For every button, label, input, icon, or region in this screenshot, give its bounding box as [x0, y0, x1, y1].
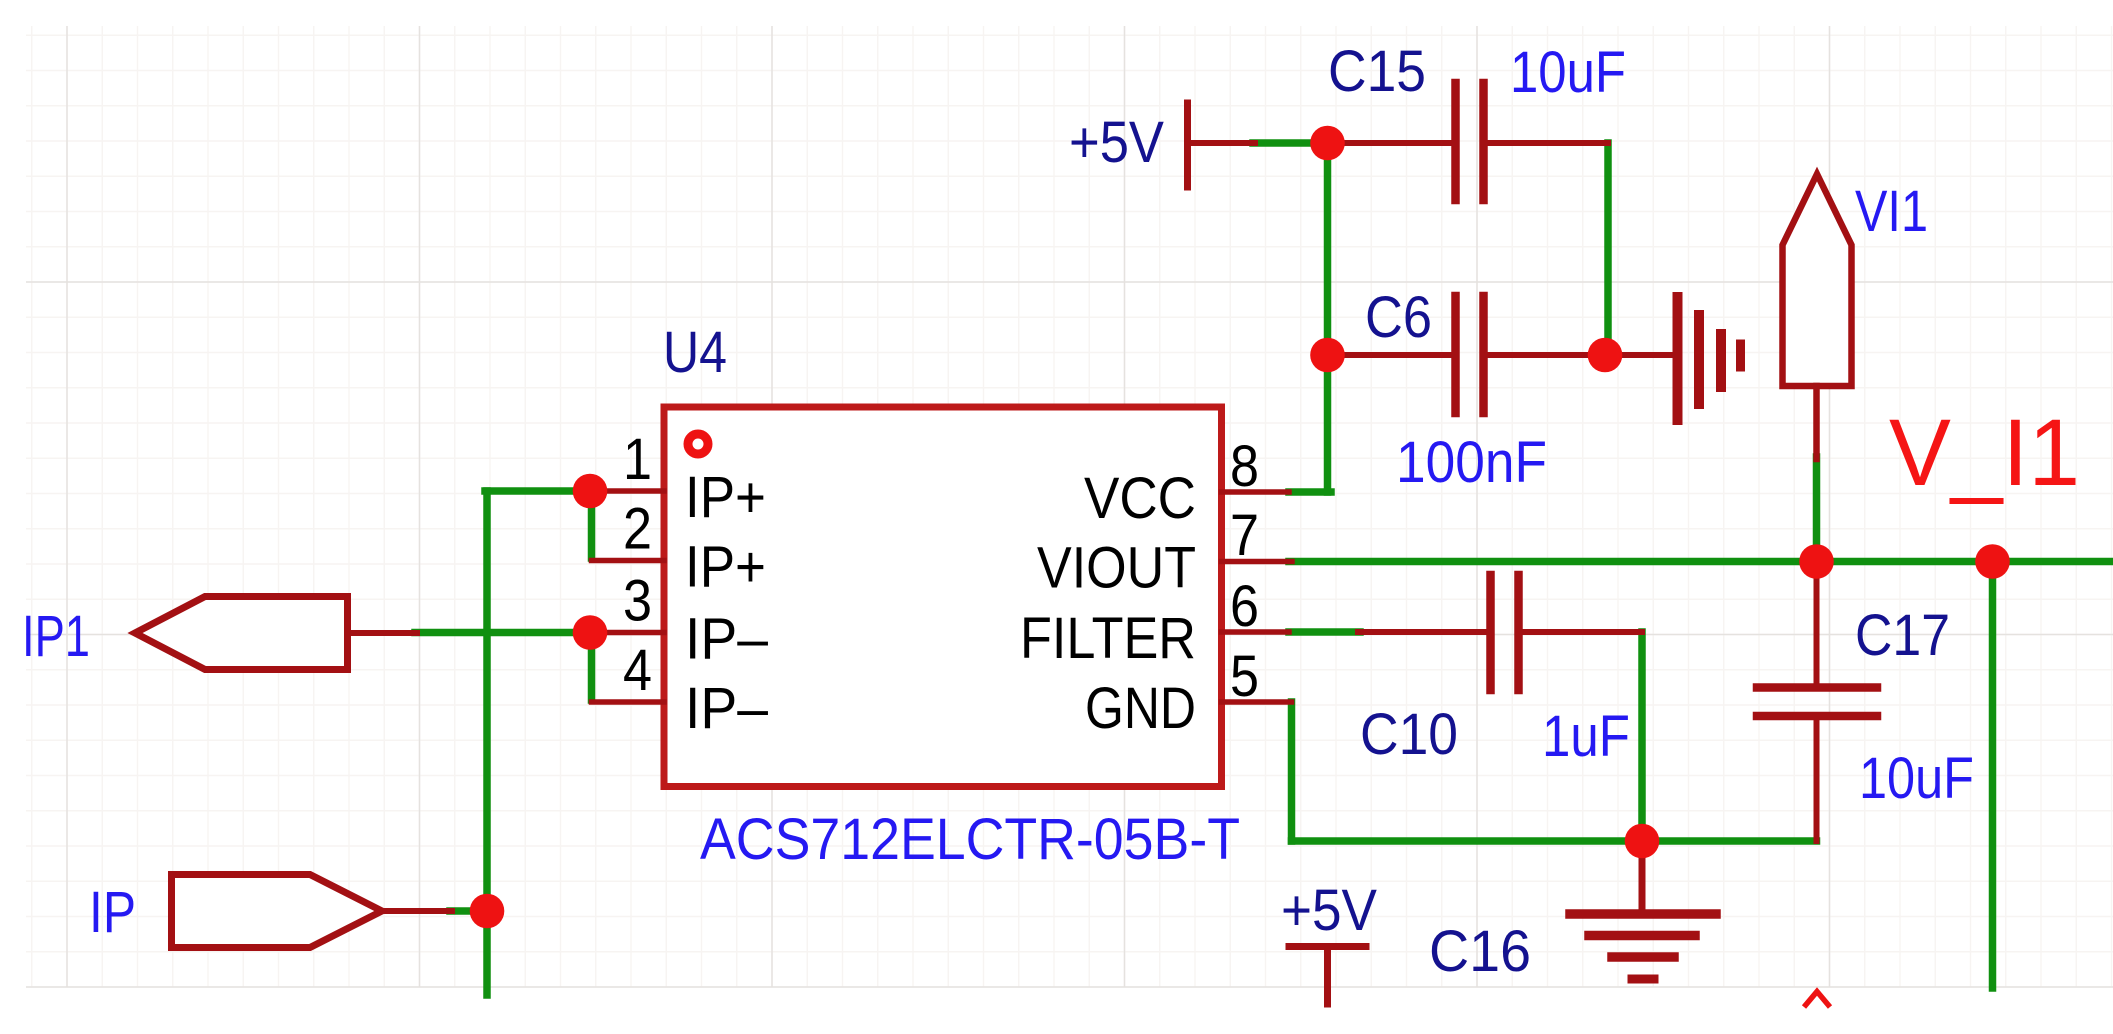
svg-text:7: 7: [1230, 503, 1259, 568]
svg-text:C15: C15: [1328, 39, 1426, 104]
wire IP port to junction: [450, 907, 487, 915]
svg-text:1: 1: [623, 427, 652, 492]
svg-text:2: 2: [623, 497, 652, 562]
svg-text:U4: U4: [663, 320, 727, 385]
port IP1 (points left): [135, 597, 348, 670]
U4 pin 5 stub: [1222, 699, 1292, 705]
pin VI1 (vertical connector pin): [1783, 174, 1852, 386]
wire pin3 to pin4 vertical: [588, 633, 596, 701]
node junction C6 right / ground: [1588, 338, 1623, 373]
+5V power symbol (bottom): [1289, 943, 1366, 950]
wire right vertical drop from VIOUT: [1989, 562, 1997, 989]
svg-text:C16: C16: [1429, 919, 1531, 984]
svg-text:10uF: 10uF: [1859, 746, 1974, 811]
capacitor C6 (right lead): [1488, 352, 1606, 358]
U4 pin 3 stub: [588, 630, 664, 636]
capacitor C17 (bottom lead): [1814, 720, 1820, 842]
svg-text:+5V: +5V: [1069, 110, 1164, 175]
svg-text:V_I1: V_I1: [1889, 400, 2080, 506]
+5V power symbol (top): [1184, 103, 1191, 187]
node junction +5V / C15: [1310, 126, 1345, 161]
wire GND net horizontal: [1292, 837, 1817, 845]
wire VI1 stem to VIOUT net: [1813, 457, 1821, 562]
svg-text:3: 3: [623, 569, 652, 634]
node junction C6 left / VCC net: [1310, 338, 1345, 373]
node junction pin1 / IP1 net: [573, 474, 608, 509]
wire pin1 to pin2 vertical: [588, 491, 596, 558]
svg-text:IP1: IP1: [22, 604, 90, 669]
svg-text:8: 8: [1230, 434, 1259, 499]
capacitor C15 (left lead): [1327, 140, 1452, 146]
svg-text:IP–: IP–: [685, 676, 769, 741]
svg-text:6: 6: [1230, 574, 1259, 639]
wire C15 right to C6 right vertical: [1604, 143, 1612, 355]
U4 pin 1 stub: [588, 488, 664, 494]
svg-text:C6: C6: [1365, 285, 1432, 350]
U4 pin 4 stub: [592, 699, 665, 705]
wire VIOUT net horizontal: [1289, 558, 2113, 566]
capacitor C15 (right lead): [1488, 140, 1609, 146]
svg-text:IP–: IP–: [685, 607, 769, 672]
wire VCC pin8 horizontal: [1289, 488, 1331, 496]
node junction GND net / ground: [1625, 824, 1660, 859]
svg-text:IP: IP: [89, 880, 136, 945]
svg-text:4: 4: [623, 638, 652, 703]
svg-text:+5V: +5V: [1281, 878, 1377, 943]
wire +5V to junction (top): [1253, 139, 1332, 147]
U4 pin 2 stub: [592, 558, 665, 564]
ground symbol (sideways, right of C6): [1605, 352, 1674, 358]
svg-text:VI1: VI1: [1855, 179, 1928, 244]
op-amp U4 body (ACS712 current sensor rectangle): [664, 407, 1222, 787]
svg-text:IP+: IP+: [685, 465, 766, 530]
svg-text:10uF: 10uF: [1510, 40, 1626, 105]
capacitor C6 plates: [1451, 296, 1460, 413]
capacitor C10 (left lead): [1358, 629, 1487, 635]
port IP (points right): [172, 875, 383, 948]
wire GND pin5 vertical: [1288, 702, 1296, 841]
wire IP1 left vertical: [483, 491, 491, 995]
node junction VIOUT / C17 / VI1: [1799, 544, 1834, 579]
wire vertical +5V junction to VCC net: [1324, 143, 1332, 492]
power symbol arrow tip (bottom, cropped): [1804, 992, 1830, 1008]
capacitor C6 (left lead): [1327, 352, 1452, 358]
svg-text:C17: C17: [1855, 603, 1950, 668]
capacitor C17 plates: [1757, 683, 1877, 692]
svg-text:FILTER: FILTER: [1020, 606, 1196, 671]
wire FILTER pin6 segment: [1289, 628, 1360, 636]
svg-text:5: 5: [1230, 644, 1259, 709]
ground symbol (below GND net): [1639, 841, 1646, 911]
U4 pin-1 orientation circle: [688, 434, 708, 454]
node junction VIOUT / right drop: [1975, 544, 2010, 579]
svg-text:VCC: VCC: [1084, 466, 1196, 531]
wire pin1 junction horizontal: [485, 487, 592, 495]
svg-text:VIOUT: VIOUT: [1037, 536, 1196, 601]
capacitor C15 plates: [1451, 83, 1460, 200]
capacitor C10 (right lead): [1523, 629, 1643, 635]
svg-text:GND: GND: [1085, 676, 1196, 741]
svg-text:IP+: IP+: [685, 535, 766, 600]
wire IP1 port to pin3: [415, 629, 592, 637]
svg-text:ACS712ELCTR-05B-T: ACS712ELCTR-05B-T: [700, 807, 1240, 872]
wire C10 right vertical: [1638, 632, 1646, 841]
U4 pin 7 stub: [1222, 559, 1293, 565]
U4 pin 6 stub: [1222, 629, 1290, 635]
node junction pin3 / IP1 port: [573, 615, 608, 650]
node junction IP port / vertical net: [470, 894, 505, 929]
svg-text:C10: C10: [1360, 702, 1458, 767]
U4 pin 8 stub: [1222, 489, 1290, 495]
capacitor C17 (top lead): [1814, 564, 1820, 684]
svg-text:100nF: 100nF: [1396, 430, 1547, 495]
capacitor C10 plates: [1486, 575, 1495, 690]
svg-text:1uF: 1uF: [1542, 704, 1630, 769]
